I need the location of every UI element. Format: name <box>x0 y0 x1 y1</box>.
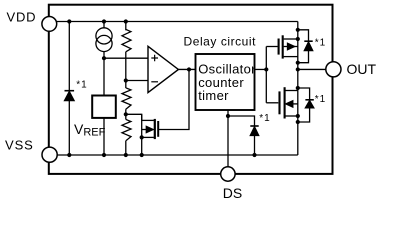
wire inverting input line to op-amp <box>126 80 148 82</box>
wire right vertical bus (VDD to VSS through output stage) <box>297 22 299 156</box>
wire D1 bottom branch <box>298 51 309 63</box>
wire D3 to VSS rail <box>254 136 256 156</box>
svg-text:DS: DS <box>223 185 242 201</box>
wire DS node to diode D3 <box>228 116 255 126</box>
junction dot VSS rail / M3 <box>140 153 144 157</box>
wire M3 body lead <box>142 129 147 131</box>
svg-text:*1: *1 <box>76 80 87 91</box>
wire oscillator output to gate bus <box>255 68 267 70</box>
junction dot DS branch <box>226 114 230 118</box>
transistor M3 body arrow <box>146 126 153 132</box>
op-amp plus input marker <box>151 55 158 62</box>
wire gate bus vertical <box>265 47 267 103</box>
current source I1 circle B <box>96 35 112 51</box>
wire M1 source lead <box>284 56 298 58</box>
transistor M3 gate bar <box>157 121 159 137</box>
junction dot VDD rail / I1 <box>102 19 106 23</box>
junction dot R2/R3 tap <box>124 112 128 116</box>
svg-text:VSS: VSS <box>5 138 34 153</box>
oscillator counter timer box <box>196 54 255 110</box>
wire non-inverting input line to op-amp <box>104 57 148 59</box>
wire M1 body lead <box>284 46 298 48</box>
resistor R2 <box>122 88 131 109</box>
transistor M2 gate bar <box>278 91 280 114</box>
junction dot VDD rail / D4 <box>67 19 71 23</box>
pin circle VSS <box>42 147 57 162</box>
wire diode D4 branch from VDD rail <box>68 22 70 91</box>
junction dot D1 top <box>296 28 300 32</box>
svg-text:OUT: OUT <box>347 61 377 77</box>
junction dot VSS rail / D4 <box>67 153 71 157</box>
junction dot M1 drain <box>296 37 300 41</box>
wire oscillator box to DS pin <box>227 110 229 167</box>
op-amp minus input marker <box>151 81 158 83</box>
transistor M1 body arrow <box>288 43 295 49</box>
wire OUT node to pin <box>298 68 326 70</box>
wire tap to transistor M3 drain <box>126 114 142 120</box>
junction dot gate bus node <box>264 67 268 71</box>
wire diode D1 top branch <box>298 30 309 41</box>
op-amp U1 comparator triangle <box>148 46 178 92</box>
svg-text:timer: timer <box>198 88 229 103</box>
pin circle OUT <box>326 62 341 77</box>
junction dot VSS rail / VREF <box>102 153 106 157</box>
transistor M3 channel bar <box>154 119 156 139</box>
wire M3 source lead <box>142 136 154 138</box>
wire M3 drain lead <box>142 119 154 121</box>
wire M3 vertical source/body bus <box>141 114 143 155</box>
transistor M1 channel bar <box>282 35 284 58</box>
transistor M2 channel bar <box>284 87 286 118</box>
junction dot OUT node <box>296 67 300 71</box>
wire diode D2 top branch <box>298 88 310 100</box>
transistor M2 body arrow <box>286 101 293 107</box>
wire resistor chain top lead <box>125 22 127 31</box>
diode D4 (*1) cathode bar <box>65 90 75 92</box>
wire M2 top lead <box>286 90 298 92</box>
current source I1 circle A <box>96 28 112 44</box>
svg-text:*1: *1 <box>315 38 326 49</box>
svg-text:VREF: VREF <box>74 121 106 139</box>
wire D2 bottom branch <box>298 108 310 122</box>
junction dot M2 source <box>296 114 300 118</box>
junction dot VSS rail / D3 <box>252 153 256 157</box>
wire op-amp output to oscillator box <box>178 68 195 70</box>
junction dot VSS rail / R3 <box>124 153 128 157</box>
diode D1 anode triangle <box>304 42 312 51</box>
wire R3 to VSS rail <box>125 141 127 155</box>
wire current source I1 top lead <box>103 22 105 28</box>
wire M3 gate lead to comparator output node <box>159 69 189 129</box>
wire M2 body lead <box>293 103 298 105</box>
junction dot comparator output node <box>187 67 191 71</box>
diode D3 anode triangle <box>250 127 258 136</box>
wire M1 top lead <box>284 38 298 40</box>
junction dot M3 source <box>140 135 144 139</box>
wire D4 to VSS rail <box>68 101 70 155</box>
svg-text:Delay circuit: Delay circuit <box>184 35 257 49</box>
wire R2 to R3 with tap <box>125 109 127 119</box>
diode D1 (*1) cathode bar <box>304 40 312 42</box>
resistor R1 <box>122 29 131 51</box>
junction dot inverting tap <box>124 78 128 82</box>
svg-text:VDD: VDD <box>7 10 37 25</box>
wire VSS rail <box>50 154 298 156</box>
transistor M1 gate bar <box>278 39 280 55</box>
wire VDD rail <box>50 21 298 23</box>
junction dot I1 output node <box>102 56 106 60</box>
wire M2 gate lead <box>266 102 278 104</box>
IC case outline <box>49 5 333 174</box>
svg-text:*1: *1 <box>315 94 326 105</box>
junction dot D2 bottom <box>296 120 300 124</box>
wire VREF box to VSS rail <box>103 118 105 155</box>
junction dot D2 top <box>296 86 300 90</box>
junction dot VDD rail / R1 <box>124 19 128 23</box>
wire M1 gate lead <box>266 46 277 48</box>
wire I1 output down to VREF box <box>103 52 105 96</box>
diode D3 (*1) cathode bar <box>250 125 258 127</box>
junction dot D1 bottom <box>296 61 300 65</box>
VREF box <box>92 96 116 118</box>
pin circle DS <box>221 167 235 181</box>
diode D2 anode triangle <box>305 101 313 108</box>
svg-text:*1: *1 <box>259 113 270 124</box>
pin circle VDD <box>42 17 57 32</box>
diode D4 anode triangle <box>65 92 75 101</box>
diode D2 (*1) cathode bar <box>305 99 313 101</box>
wire M2 source lead <box>286 115 298 117</box>
wire R1 to inverting tap <box>125 52 127 88</box>
resistor R3 <box>122 119 131 140</box>
